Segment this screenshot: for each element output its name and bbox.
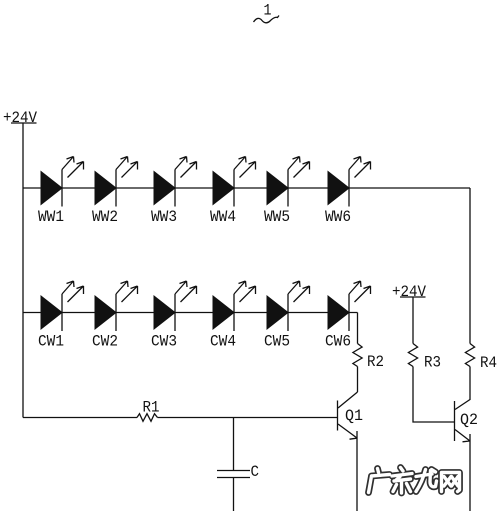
wire: WW row bus xyxy=(23,187,470,189)
svg-text:WW6: WW6 xyxy=(325,208,351,226)
svg-text:C: C xyxy=(251,463,260,481)
wire: left +24V rail xyxy=(22,124,24,418)
+24V underline (right) xyxy=(400,296,426,298)
LED WW3 xyxy=(154,157,197,207)
svg-text:WW1: WW1 xyxy=(38,208,64,226)
wire: right branch down from WW bus xyxy=(469,188,471,344)
watermark 广东龙网 xyxy=(369,468,460,494)
figure label squiggle xyxy=(254,16,280,23)
wire: CW row bus xyxy=(23,312,358,314)
svg-text:1: 1 xyxy=(264,2,272,20)
LED WW1 xyxy=(41,157,84,207)
svg-text:R2: R2 xyxy=(367,353,384,371)
LED CW5 xyxy=(267,281,310,331)
svg-text:+24V: +24V xyxy=(3,109,37,127)
svg-text:CW1: CW1 xyxy=(38,333,64,351)
wire: +24V to R3 xyxy=(412,298,414,344)
LED CW4 xyxy=(213,281,256,331)
svg-text:Q2: Q2 xyxy=(460,411,478,429)
wire: base net R1 left segment xyxy=(23,417,137,419)
+24V underline (left) xyxy=(11,122,37,124)
wire: R4 to Q2 collector xyxy=(469,367,471,401)
svg-text:WW3: WW3 xyxy=(151,208,177,226)
transistor Q2 xyxy=(455,400,471,442)
LED WW5 xyxy=(267,157,310,207)
wire: base net R1 right segment xyxy=(158,417,338,419)
svg-text:CW4: CW4 xyxy=(210,333,236,351)
svg-text:CW2: CW2 xyxy=(92,333,118,351)
LED CW2 xyxy=(95,281,138,331)
svg-text:R1: R1 xyxy=(143,399,160,417)
resistor R4 xyxy=(465,344,474,367)
LED WW4 xyxy=(213,157,256,207)
svg-text:WW5: WW5 xyxy=(264,208,290,226)
LED CW3 xyxy=(154,281,197,331)
resistor R1 xyxy=(137,414,158,422)
wire: capacitor branch xyxy=(233,418,235,471)
svg-text:CW6: CW6 xyxy=(325,333,351,351)
svg-text:WW2: WW2 xyxy=(92,208,118,226)
svg-text:WW4: WW4 xyxy=(210,208,236,226)
svg-text:CW3: CW3 xyxy=(151,333,177,351)
LED CW6 xyxy=(328,281,371,331)
svg-text:Q1: Q1 xyxy=(345,407,363,425)
svg-text:R4: R4 xyxy=(480,354,497,372)
svg-text:CW5: CW5 xyxy=(264,333,290,351)
resistor R3 xyxy=(408,344,417,367)
wire: below capacitor xyxy=(233,478,235,512)
wire: R3 down to Q2 base xyxy=(413,367,455,423)
LED WW2 xyxy=(95,157,138,207)
transistor Q1 xyxy=(338,392,358,439)
wire: Q2 emitter down xyxy=(469,441,471,511)
wire: Q1 emitter down xyxy=(356,438,358,511)
capacitor C xyxy=(217,471,250,478)
svg-text:R3: R3 xyxy=(424,354,441,372)
wire: R2 to Q1 collector xyxy=(357,367,359,393)
LED CW1 xyxy=(41,281,84,331)
svg-text:+24V: +24V xyxy=(392,283,426,301)
resistor R2 xyxy=(353,344,362,367)
LED WW6 xyxy=(328,157,371,207)
wire: CW6 down to R2 xyxy=(357,313,359,344)
